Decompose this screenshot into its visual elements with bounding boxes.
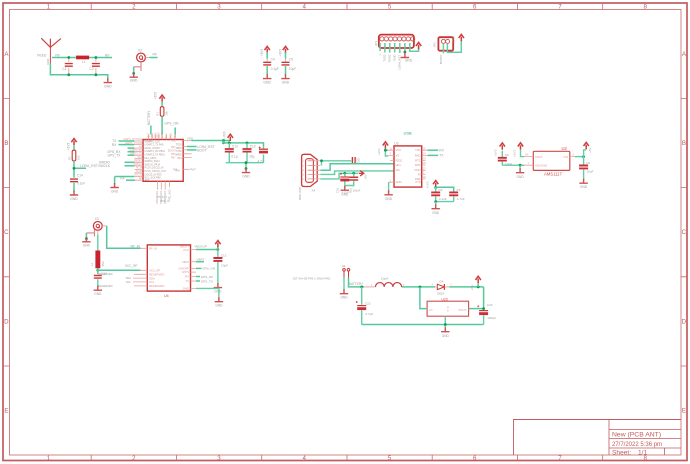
svg-text:GND: GND <box>183 286 189 290</box>
svg-text:D: D <box>447 310 449 313</box>
MCU right wires LORA_RST BOOT <box>187 146 197 148</box>
junction C10 <box>343 172 346 175</box>
svg-text:MINI-USB: MINI-USB <box>298 187 302 200</box>
svg-text:GND: GND <box>70 197 78 201</box>
svg-text:C8: C8 <box>438 188 442 192</box>
svg-text:RI: RI <box>418 172 421 176</box>
svg-text:TR9: TR9 <box>177 158 182 160</box>
power +3V3 C8 <box>433 181 438 188</box>
wire C4 to gnd <box>266 66 268 75</box>
U3 left pin stubs <box>388 150 394 182</box>
svg-text:VBAT: VBAT <box>197 258 205 262</box>
capacitor C8 <box>435 187 437 201</box>
capacitor C11 polarized <box>263 147 265 162</box>
U2 pin stubs <box>524 157 575 166</box>
svg-text:VBAT: VBAT <box>147 132 150 138</box>
U4 left pin names <box>149 247 164 289</box>
svg-text:C5: C5 <box>505 153 509 157</box>
svg-text:3RD8: 3RD8 <box>176 148 183 150</box>
svg-text:RF: RF <box>153 53 158 57</box>
resistor R2 <box>72 150 76 161</box>
column numbers bottom <box>47 455 648 462</box>
svg-text:GND: GND <box>396 180 402 184</box>
svg-text:RESERVED: RESERVED <box>149 284 164 288</box>
MCU U1 box <box>143 140 183 182</box>
power +5V boost <box>477 283 479 287</box>
ground GND C5 <box>281 74 289 79</box>
svg-text:RF_IN: RF_IN <box>149 247 157 251</box>
row letters right <box>682 51 687 415</box>
wire RF from X2 <box>150 57 158 59</box>
header JP2 <box>438 37 453 51</box>
wire USB gnd rail to 5V caps <box>320 173 358 179</box>
svg-text:TYB8: TYB8 <box>176 151 182 153</box>
svg-text:U2: U2 <box>562 146 568 151</box>
svg-text:C9: C9 <box>456 188 460 192</box>
svg-text:PB0: PB0 <box>175 134 177 139</box>
svg-text:NRST: NRST <box>162 132 164 139</box>
svg-text:RTS: RTS <box>415 159 421 163</box>
svg-text:C23: C23 <box>487 303 493 307</box>
wire +3V3 U3 <box>385 149 388 156</box>
U4 left reserved labels <box>98 272 131 288</box>
svg-text:+3V3: +3V3 <box>279 49 283 57</box>
svg-text:FEED: FEED <box>37 54 47 58</box>
svg-text:1/1: 1/1 <box>638 449 647 456</box>
capacitor C15 <box>217 250 219 285</box>
svg-text:R2: R2 <box>67 156 71 160</box>
svg-text:470n: 470n <box>101 260 105 267</box>
svg-text:V3: V3 <box>396 153 400 157</box>
svg-text:GND: GND <box>215 304 223 308</box>
svg-text:+3V3: +3V3 <box>222 131 226 139</box>
svg-text:+5V: +5V <box>588 148 592 153</box>
svg-text:LX: LX <box>429 308 433 312</box>
svg-text:VBCKUP: VBCKUP <box>195 245 207 249</box>
svg-text:GND: GND <box>580 185 588 189</box>
svg-text:DCD: DCD <box>415 168 421 172</box>
svg-text:C2: C2 <box>89 67 93 71</box>
svg-text:+5V: +5V <box>364 174 368 179</box>
svg-text:LORA_RST: LORA_RST <box>80 164 98 168</box>
svg-text:SWCLK: SWCLK <box>133 163 142 166</box>
svg-text:+3V3: +3V3 <box>426 181 430 188</box>
net label BATTERY wire <box>150 126 152 135</box>
wire C8 C9 bottom rail <box>436 201 454 203</box>
svg-text:VDD1: VDD1 <box>152 132 154 139</box>
svg-text:+3V3: +3V3 <box>154 92 158 100</box>
power +3V3 C4 <box>265 46 270 53</box>
ground GND U5 <box>441 327 449 332</box>
coax connector X3 <box>93 222 102 231</box>
wire U5 gnd <box>444 316 446 328</box>
junction JP1 gnd <box>404 51 407 54</box>
column numbers top <box>47 4 648 11</box>
wire U4 gnd <box>196 288 219 298</box>
capacitor C4 <box>263 62 271 65</box>
svg-text:GND: GND <box>393 55 397 61</box>
junction U2 vin <box>582 155 585 158</box>
junction cap rail c12 <box>228 142 231 145</box>
U3 right stubs <box>422 150 428 179</box>
ferrite bars on VBUS <box>352 157 355 163</box>
ground GND caps <box>242 168 250 173</box>
svg-text:RXD: RXD <box>415 153 421 157</box>
svg-text:0.1µF: 0.1µF <box>271 67 279 71</box>
ground GND J1 <box>340 289 348 294</box>
wire R1 to U1 <box>161 116 163 134</box>
wire U4 on off <box>196 267 202 269</box>
inductor L2 <box>95 251 100 269</box>
wire caps bottom rail <box>226 163 264 169</box>
wire bottom rail boost <box>362 324 484 326</box>
svg-text:TX: TX <box>185 279 189 283</box>
svg-text:2: 2 <box>132 455 136 462</box>
MCU left pin names <box>123 138 142 180</box>
capacitor C2 <box>95 58 97 75</box>
svg-text:RF: RF <box>120 176 124 180</box>
svg-text:E: E <box>682 408 686 415</box>
svg-text:UD+: UD+ <box>396 163 402 167</box>
MCU left pin rows <box>134 141 143 180</box>
svg-text:GPS_ON: GPS_ON <box>164 122 179 126</box>
junction C8 top <box>434 186 437 189</box>
svg-text:RX: RX <box>439 149 444 153</box>
svg-text:TXD2: TXD2 <box>383 54 387 62</box>
power +5V U2 <box>583 149 585 156</box>
svg-text:SCL: SCL <box>126 280 132 284</box>
wire U2 adj gnd rail <box>502 164 524 166</box>
svg-text:RXD2: RXD2 <box>388 54 392 62</box>
svg-text:JST-XH-02-PIN-1-GND-PAD: JST-XH-02-PIN-1-GND-PAD <box>293 277 332 281</box>
svg-text:PB1_ADC: PB1_ADC <box>168 189 171 200</box>
svg-text:C: C <box>451 284 453 287</box>
svg-text:R1: R1 <box>155 112 159 116</box>
junction C22 top <box>360 286 363 289</box>
svg-text:+3V3: +3V3 <box>260 49 264 57</box>
svg-text:New (PCB ANT): New (PCB ANT) <box>612 431 661 438</box>
svg-text:8: 8 <box>643 4 647 11</box>
header JP1 <box>379 35 414 48</box>
junction caps gnd <box>245 161 248 164</box>
svg-text:TXD: TXD <box>415 148 420 152</box>
svg-text:PA11: PA11 <box>165 133 168 139</box>
X4 contact fingers <box>308 161 316 179</box>
U4 right pin names <box>178 244 189 290</box>
svg-text:PB7: PB7 <box>171 157 176 159</box>
inductor L3 coil <box>376 283 402 287</box>
svg-text:BOOT: BOOT <box>197 148 206 152</box>
svg-text:X3: X3 <box>95 217 99 221</box>
svg-text:GND: GND <box>340 296 348 300</box>
svg-text:VOUT: VOUT <box>458 308 467 312</box>
MCU top pin names <box>147 132 177 139</box>
ground GND C6 <box>579 179 587 184</box>
svg-text:GND: GND <box>94 292 102 296</box>
wire J1 pin1 gnd <box>343 278 345 291</box>
USB connector X4 <box>302 154 318 186</box>
title block box <box>514 420 682 456</box>
wire U4 vcc <box>196 249 218 251</box>
ground GND MCU left <box>110 183 118 188</box>
power +3V3 MCU vdd <box>228 134 233 141</box>
title block divider vertical <box>608 420 610 456</box>
wire U2 gnd drop <box>519 165 521 169</box>
capacitor C20 <box>501 151 503 165</box>
wire U4 vbat <box>196 261 204 263</box>
IC U3 CP2102 box <box>394 146 422 187</box>
wire VBUS <box>320 161 351 166</box>
svg-text:AMS1117: AMS1117 <box>544 171 562 176</box>
inductor L1 <box>76 56 89 60</box>
svg-text:GND: GND <box>104 84 112 88</box>
svg-text:RF_IN: RF_IN <box>131 244 141 248</box>
diode D4 <box>437 284 444 289</box>
svg-text:CTS: CTS <box>415 180 421 184</box>
svg-text:GND: GND <box>341 192 349 196</box>
svg-text:PA12: PA12 <box>170 132 173 138</box>
svg-text:E: E <box>4 408 8 415</box>
power +3V3 U4 <box>217 247 219 250</box>
wire VDD cap rail <box>224 141 264 148</box>
svg-text:B: B <box>4 140 8 147</box>
svg-text:C12: C12 <box>232 145 238 149</box>
svg-text:3: 3 <box>217 4 221 11</box>
U3 right pin numbers <box>423 147 426 179</box>
svg-text:R232: R232 <box>396 159 403 163</box>
svg-text:BOOT0: BOOT0 <box>439 54 443 64</box>
svg-text:0.1µ: 0.1µ <box>231 155 237 159</box>
ground GND X3 <box>82 237 90 242</box>
power +3V3 U3 <box>383 142 388 149</box>
MCU top pin stubs <box>149 135 176 140</box>
column ticks top <box>91 4 603 10</box>
svg-text:UD-: UD- <box>396 168 401 172</box>
junction U3 vcc <box>384 149 387 152</box>
ground GND C4 <box>263 74 271 79</box>
power +3V3 C20 <box>500 143 505 150</box>
svg-text:C14: C14 <box>77 173 83 177</box>
wire USB D- <box>320 171 394 175</box>
row ticks left <box>4 98 10 366</box>
svg-text:PC13: PC13 <box>160 195 167 199</box>
wire U4 rx <box>196 276 200 278</box>
wire LX drop <box>420 287 427 309</box>
svg-text:C4: C4 <box>271 58 275 62</box>
svg-text:7: 7 <box>558 455 562 462</box>
svg-text:C: C <box>682 229 687 236</box>
power +3V3 U2 out <box>518 143 523 150</box>
svg-text:D: D <box>682 318 687 325</box>
ground GND C15 <box>214 283 222 288</box>
svg-text:6: 6 <box>473 4 477 11</box>
ground GND C16 <box>94 286 102 291</box>
svg-text:+3V3: +3V3 <box>494 149 498 156</box>
wire VOUT <box>469 308 484 310</box>
svg-text:10µF: 10µF <box>586 170 593 174</box>
junction U4 vcc <box>217 248 220 251</box>
ground GND JP1 <box>401 53 409 58</box>
row ticks right <box>681 98 687 366</box>
MCU left wires <box>115 141 135 184</box>
svg-text:5: 5 <box>388 4 392 11</box>
wire +3V3 to C5 <box>285 52 287 59</box>
svg-text:GND: GND <box>405 59 413 63</box>
svg-text:4.7uF: 4.7uF <box>457 197 465 201</box>
junction VBUS <box>320 159 323 162</box>
svg-text:GND: GND <box>83 244 91 248</box>
junction cap rail c13 <box>246 142 249 145</box>
wire RX TX <box>428 149 439 151</box>
svg-text:GPS_RX: GPS_RX <box>201 275 214 279</box>
wire X2 shield to gnd <box>133 67 135 74</box>
svg-text:DTR: DTR <box>415 163 421 167</box>
U3 left pin names <box>396 148 403 184</box>
capacitor C6 <box>583 157 585 180</box>
svg-text:X2: X2 <box>138 49 142 53</box>
wire C16 gnd <box>97 279 99 287</box>
row letters left <box>4 51 9 415</box>
wire RF top rail <box>52 57 112 59</box>
junction C7 <box>352 172 355 175</box>
wire R2 to node <box>74 161 86 178</box>
svg-text:GND: GND <box>46 59 50 65</box>
MCU inner misc pin names <box>145 140 167 182</box>
capacitor C1 <box>68 58 70 75</box>
resistor R1 <box>160 107 164 117</box>
svg-text:ANT: ANT <box>145 179 150 182</box>
svg-text:VCC: VCC <box>183 248 189 252</box>
svg-text:0.1uF: 0.1uF <box>77 182 85 186</box>
svg-text:C1: C1 <box>62 67 66 71</box>
wire C5 to gnd <box>285 66 287 75</box>
capacitor C13 <box>246 143 248 163</box>
MCU right pin names <box>145 141 178 172</box>
coax connector X2 <box>137 53 146 62</box>
svg-text:4.7µF: 4.7µF <box>365 312 373 316</box>
power +5V arrow right <box>359 171 364 176</box>
svg-text:3: 3 <box>217 455 221 462</box>
svg-text:GND: GND <box>385 197 393 201</box>
capacitor C5 <box>282 62 290 65</box>
svg-text:J1: J1 <box>342 264 345 268</box>
svg-text:VIN: VIN <box>563 155 568 159</box>
svg-text:RF: RF <box>105 53 110 57</box>
capacitor C22 polarized <box>361 287 363 325</box>
junction 5V rail <box>477 286 480 289</box>
power +3V3 R2 pullup <box>71 139 76 146</box>
regulator U2 AMS1117 box <box>533 151 570 170</box>
svg-text:GPS_TX: GPS_TX <box>107 154 121 158</box>
svg-text:2: 2 <box>132 4 136 11</box>
svg-text:GND: GND <box>282 81 290 85</box>
wire X3 shield gnd <box>85 233 87 239</box>
svg-text:27/7/2022 5:36 pm: 27/7/2022 5:36 pm <box>612 442 662 448</box>
capacitor C10 polarized <box>344 173 346 184</box>
MCU bottom pin labels <box>156 189 171 204</box>
svg-text:GPS_TX: GPS_TX <box>201 279 213 283</box>
svg-text:USB: USB <box>404 131 413 136</box>
title block row lines <box>609 430 681 456</box>
ground GND C14 <box>70 191 78 196</box>
junction VDD rail <box>222 139 225 142</box>
U3 right pin names <box>415 148 421 184</box>
svg-text:BATTERY: BATTERY <box>147 110 151 125</box>
junction L2 bottom <box>96 269 99 272</box>
svg-text:+3V3: +3V3 <box>377 148 381 155</box>
wire C8 C9 top rail <box>436 187 454 191</box>
MCU inner right pin names <box>175 145 182 173</box>
svg-text:TH8: TH8 <box>175 170 180 172</box>
svg-text:100µF: 100µF <box>487 316 496 320</box>
svg-text:10µH: 10µH <box>381 277 388 281</box>
svg-text:Sheet:: Sheet: <box>612 449 631 456</box>
X2 signal pin <box>145 57 149 59</box>
svg-text:RESERVED: RESERVED <box>98 284 112 288</box>
svg-text:RX: RX <box>112 143 117 147</box>
MCU right pin stubs <box>183 141 191 170</box>
ground GND U2 <box>516 168 524 173</box>
svg-text:C6: C6 <box>586 161 590 165</box>
svg-text:RESERVED: RESERVED <box>98 272 112 276</box>
X3 center pin down <box>97 230 99 234</box>
capacitor C9 <box>453 196 455 201</box>
junction LORA_RST node <box>73 167 76 170</box>
svg-text:U23: U23 <box>441 297 447 301</box>
junction U2 gnd <box>519 164 522 167</box>
wire +3V3 to R2 <box>73 145 75 150</box>
ground GND pi filter <box>104 78 112 83</box>
power +3V3 C5 <box>283 46 288 53</box>
wire C8 gnd <box>435 202 437 206</box>
svg-text:100nF: 100nF <box>353 189 361 193</box>
wire C10 C7 gnd <box>345 184 354 187</box>
MCU bottom pin stubs <box>157 181 169 189</box>
svg-text:OSC32: OSC32 <box>134 174 143 177</box>
junction C23 <box>482 307 485 310</box>
X4 pin numbers <box>303 161 305 181</box>
svg-text:GND: GND <box>111 189 119 193</box>
svg-text:+3V3: +3V3 <box>66 143 70 151</box>
wire +3V3 to R1 <box>161 102 163 107</box>
power +3V3 JP2 <box>459 34 464 41</box>
ground GND X2 <box>130 73 138 78</box>
svg-text:RF: RF <box>139 177 143 180</box>
wire U2 vout <box>521 150 525 157</box>
U4 left pin stubs <box>133 248 147 286</box>
svg-text:PA?: PA? <box>190 168 196 172</box>
svg-text:C5: C5 <box>289 58 293 62</box>
svg-text:GND: GND <box>432 211 440 215</box>
svg-text:GPS_ON: GPS_ON <box>202 267 215 271</box>
junction X3 shield <box>85 237 88 240</box>
wire USB D+ <box>320 164 394 170</box>
svg-text:3MD8: 3MD8 <box>175 155 182 157</box>
svg-text:GND: GND <box>242 175 250 179</box>
svg-text:GND: GND <box>517 175 525 179</box>
svg-text:PA1: PA1 <box>138 156 143 159</box>
svg-text:+3V3: +3V3 <box>452 36 456 43</box>
power +3V3 JP1 <box>416 42 421 49</box>
antenna ANT1 <box>41 38 61 63</box>
svg-text:C10: C10 <box>336 188 340 193</box>
svg-text:UART1_RX PA10: UART1_RX PA10 <box>123 138 142 141</box>
X3 shield pin <box>86 230 94 237</box>
svg-text:0.1uF: 0.1uF <box>439 197 447 201</box>
svg-text:ADJ/GND: ADJ/GND <box>535 164 547 168</box>
svg-text:VDD2: VDD2 <box>156 132 158 139</box>
ground GND C8 <box>432 204 440 209</box>
